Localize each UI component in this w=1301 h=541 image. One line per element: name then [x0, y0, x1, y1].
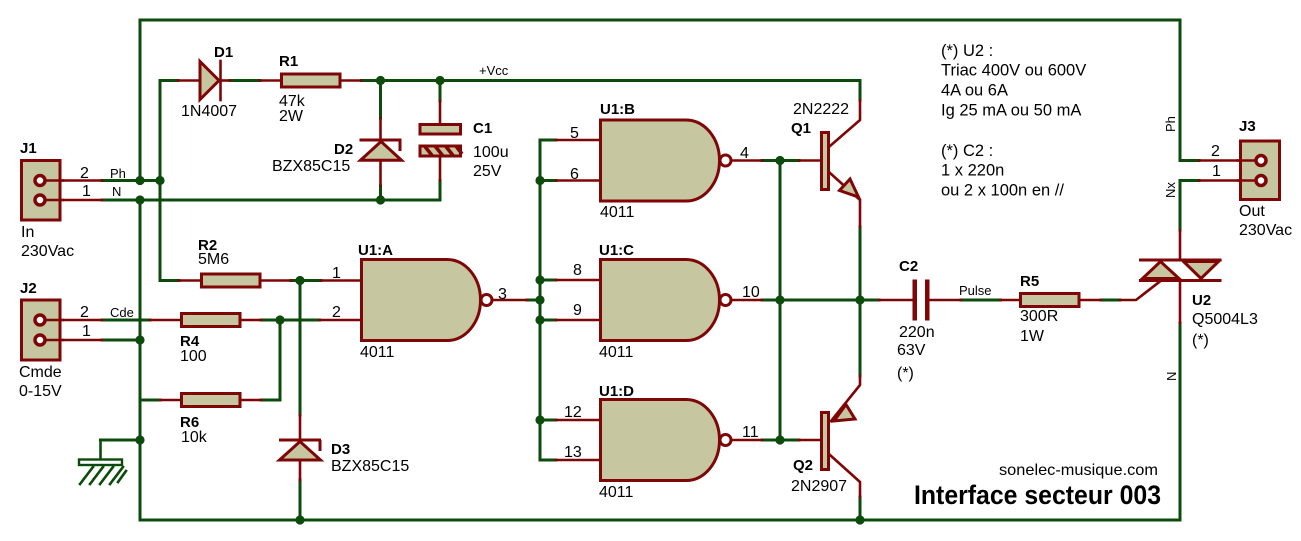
wire Ph vertical x160 from D1 down to R2 [160, 81, 179, 281]
node emitters / C2 [855, 295, 864, 304]
wire R5 left lead [1001, 299, 1020, 302]
wire U1:C out to C2 [762, 299, 879, 302]
wire Q2 emitter lead [831, 376, 860, 421]
zener D2 [360, 140, 402, 160]
wire Q1 emitter lead [830, 173, 860, 227]
connector J1 [22, 161, 61, 221]
wire U1:B pin 6 stub [556, 179, 600, 182]
svg-text:1 x 220n: 1 x 220n [941, 162, 1004, 180]
svg-text:R5: R5 [1020, 273, 1039, 290]
wire R2 right lead [262, 279, 292, 282]
wire stub pin12 [540, 419, 556, 422]
wire R4 node down to R6 [261, 320, 280, 400]
svg-text:100: 100 [180, 348, 207, 365]
wire U1:D pin 13 stub [556, 459, 600, 462]
svg-text:9: 9 [573, 302, 582, 319]
svg-text:U1:B: U1:B [600, 101, 635, 118]
wire R6 left to ground vertical [140, 399, 160, 402]
node bus pin9 [535, 315, 544, 324]
wire triac gate lead [1120, 281, 1161, 300]
wire U1:D pin 12 stub [556, 419, 600, 422]
wire Q2 collector lead [830, 455, 860, 497]
svg-text:10k: 10k [181, 429, 208, 446]
svg-text:2N2222: 2N2222 [793, 101, 849, 118]
svg-text:In: In [21, 224, 34, 241]
svg-text:63V: 63V [897, 342, 926, 359]
wire U1:A pin 1 stub [321, 279, 361, 282]
svg-text:2W: 2W [279, 108, 304, 125]
svg-text:Cmde: Cmde [19, 364, 62, 381]
svg-text:Q2: Q2 [793, 457, 813, 474]
svg-text:4011: 4011 [360, 344, 395, 361]
svg-text:Ph: Ph [110, 166, 126, 181]
wire D2 cathode lead [379, 118, 382, 140]
node pin2 / R4 / R6 [275, 315, 284, 324]
node bus pin12 [535, 415, 544, 424]
svg-text:D2: D2 [334, 141, 353, 158]
wire D3 bottom to rail [299, 480, 302, 520]
wire N/ground: left vertical, bottom rail, up to triac MT1 [140, 200, 1180, 520]
wire C2 right lead [929, 299, 961, 302]
svg-text:10: 10 [742, 284, 760, 301]
wire stub pin9 [540, 319, 556, 322]
wire J3 pin 2 lead [1199, 159, 1256, 162]
transistor Q2 [822, 405, 856, 470]
svg-text:Triac 400V ou 600V: Triac 400V ou 600V [941, 62, 1086, 80]
NAND gate U1:D [601, 400, 732, 481]
wire node pin1 vertical x300 to D3 [299, 281, 302, 416]
svg-text:1N4007: 1N4007 [181, 103, 237, 120]
wire D3 anode lead [299, 461, 302, 481]
svg-text:J1: J1 [20, 140, 37, 157]
svg-text:C2: C2 [899, 258, 918, 275]
node D3 on bottom rail [295, 515, 304, 524]
wire Ph row J1 pin2 to vertical [102, 179, 160, 182]
svg-text:Q5004L3: Q5004L3 [1192, 311, 1258, 328]
wire D1 cathode lead [222, 79, 230, 82]
wire U1:B pin 4 stub [733, 159, 763, 162]
wire N row from J1 pin1 to C1 bottom [102, 181, 440, 201]
wire J3 pin 1 lead [1199, 179, 1256, 182]
wire J3 pin stubs into box [1238, 159, 1255, 162]
svg-text:6: 6 [570, 166, 579, 183]
wire U1:A pin 2 stub [320, 319, 362, 322]
wire R6 right lead [242, 399, 262, 402]
connector J3 [1241, 141, 1280, 200]
svg-text:Ig 25 mA ou 50 mA: Ig 25 mA ou 50 mA [941, 102, 1081, 120]
svg-text:(*): (*) [897, 365, 914, 382]
NAND gate U1:A [362, 260, 493, 341]
wire D3 cathode lead [299, 415, 302, 440]
wire D2 anode lead [379, 161, 382, 187]
svg-text:Cde: Cde [110, 305, 134, 320]
wire U1:C pin 9 stub [556, 319, 600, 322]
wire R2 to U1:A pin1 [291, 279, 321, 282]
wire pin3 bus x540 pin5 to pin13 [540, 140, 556, 460]
svg-text:230Vac: 230Vac [21, 243, 74, 260]
svg-text:25V: 25V [473, 163, 502, 180]
node +Vcc at C1 [435, 76, 444, 85]
diode D1 [200, 61, 221, 100]
svg-text:11: 11 [742, 424, 759, 441]
svg-text:3: 3 [498, 286, 507, 303]
svg-text:D1: D1 [214, 44, 233, 61]
svg-text:1: 1 [82, 323, 91, 340]
node Ph at x160 [155, 176, 164, 185]
node N at left border [135, 195, 144, 204]
svg-text:sonelec-musique.com: sonelec-musique.com [999, 462, 1158, 479]
node junction dots [135, 76, 864, 525]
wire J2 pin stubs into box [45, 319, 63, 322]
svg-text:1: 1 [82, 183, 91, 200]
wire C1 top [439, 81, 442, 102]
wire emitter column Q1-Q2 [859, 227, 862, 376]
wire J2 pin 2 lead [44, 319, 102, 322]
wire D1 to R1 [230, 79, 260, 82]
svg-text:N: N [112, 184, 121, 199]
wire J2 pin2 toward R4 [102, 319, 150, 322]
wire output bus x780 [779, 161, 782, 441]
svg-text:Q1: Q1 [791, 120, 811, 137]
wire J1 pin 2 lead [44, 179, 102, 182]
wire R6 left lead [160, 399, 180, 402]
ground [79, 440, 126, 484]
svg-text:J3: J3 [1239, 118, 1256, 135]
wire U1:A output to bus [527, 299, 540, 302]
svg-text:4011: 4011 [600, 204, 635, 221]
wire R5 right lead [1082, 299, 1102, 302]
svg-text:2: 2 [80, 304, 89, 321]
wire R4 left lead [150, 319, 180, 322]
connector J2 [22, 300, 61, 360]
resistor R1 [282, 74, 341, 87]
wire Q1 base lead [799, 159, 821, 162]
wire D2 top [379, 81, 382, 119]
svg-text:(*): (*) [1192, 332, 1209, 349]
node Ph at left border [135, 176, 144, 185]
wire J2 pin1 to ground vertical [102, 339, 140, 342]
wire R5 right to triac gate stub [1101, 299, 1120, 302]
node +Vcc at D2 [376, 76, 385, 85]
wire J1 pin 1 lead [44, 199, 102, 202]
node ground symbol tap [135, 435, 144, 444]
wire R2 left lead [179, 279, 200, 282]
svg-text:100u: 100u [473, 144, 509, 161]
svg-text:230Vac: 230Vac [1239, 222, 1292, 239]
NAND gate U1:C [601, 260, 732, 341]
svg-text:U1:D: U1:D [599, 383, 634, 400]
svg-text:Out: Out [1239, 203, 1265, 220]
svg-text:Nx: Nx [1163, 182, 1178, 198]
svg-text:0-15V: 0-15V [19, 383, 62, 400]
resistor R6 [182, 394, 241, 407]
svg-text:5M6: 5M6 [198, 251, 229, 268]
node pin10 / C2 [775, 295, 784, 304]
node bus pin6 [535, 176, 544, 185]
node pin1 / R2 / D3 [295, 276, 304, 285]
wire U1:A pin 3 stub [493, 299, 528, 302]
svg-text:U1:A: U1:A [358, 242, 393, 259]
svg-text:2: 2 [1211, 143, 1220, 160]
wire R4 right lead [242, 319, 262, 322]
svg-text:U2: U2 [1192, 292, 1211, 309]
svg-text:4011: 4011 [599, 344, 634, 361]
wire Q1 collector lead [830, 100, 860, 146]
resistor R2 [202, 274, 261, 287]
svg-text:Ph: Ph [1163, 116, 1178, 132]
svg-text:5: 5 [570, 125, 579, 142]
wire R4 to U1:A pin2 [261, 319, 320, 322]
wire U1:C pin 10 stub [733, 299, 763, 302]
svg-text:N: N [1164, 372, 1179, 381]
wire triac MT2 lead [1179, 230, 1182, 260]
svg-text:Interface secteur 003: Interface secteur 003 [914, 480, 1161, 510]
transistor Q1 [822, 133, 859, 198]
svg-text:12: 12 [564, 404, 582, 421]
node bus pin3 [535, 295, 544, 304]
svg-text:2: 2 [332, 304, 341, 321]
wire U1:B pin 5 stub [556, 139, 600, 142]
svg-text:4011: 4011 [599, 484, 634, 501]
wire J2 pin 1 lead [44, 339, 102, 342]
node J2 pin1 ground [135, 335, 144, 344]
wire stub pin8 [540, 279, 556, 282]
zener D3 [279, 440, 321, 460]
svg-text:BZX85C15: BZX85C15 [272, 158, 350, 175]
svg-text:4: 4 [740, 145, 749, 162]
node Q2 collector on bottom rail [855, 515, 864, 524]
capacitor C2 [913, 280, 930, 321]
svg-text:(*) C2 :: (*) C2 : [941, 142, 993, 160]
wire triac MT1 lead [1179, 281, 1182, 324]
wire U1:D pin 11 stub [733, 439, 763, 442]
svg-text:220n: 220n [899, 324, 935, 341]
svg-text:1: 1 [332, 265, 341, 282]
wire Ph net: J1 up, top border, down to J3 pin 2 [140, 20, 1199, 181]
capacitor C1 [419, 125, 463, 158]
wire C2 right to R5 [961, 299, 1001, 302]
svg-text:R1: R1 [279, 53, 298, 70]
resistor R5 [1021, 294, 1080, 307]
wire stub pin6 [540, 179, 556, 182]
svg-text:1W: 1W [1020, 328, 1045, 345]
wire ground symbol to vertical [101, 439, 141, 442]
wire C1 top lead [439, 101, 442, 123]
wire U1:B out to Q1 base [762, 159, 799, 162]
svg-text:300R: 300R [1020, 308, 1058, 325]
wire J1 pin stubs into box [45, 179, 63, 182]
node bus pin8 [535, 275, 544, 284]
svg-text:2N2907: 2N2907 [791, 478, 847, 495]
svg-text:13: 13 [564, 444, 582, 461]
node pin4 / Q1 base [775, 156, 784, 165]
svg-text:4A ou 6A: 4A ou 6A [941, 82, 1008, 100]
svg-text:2: 2 [80, 165, 89, 182]
svg-text:Pulse: Pulse [959, 283, 992, 298]
resistor R4 [182, 314, 241, 327]
wire U1:D out to Q2 base [762, 439, 799, 442]
wire R1 left lead [260, 79, 280, 82]
node N at D2 [376, 195, 385, 204]
svg-text:(*) U2 :: (*) U2 : [941, 42, 993, 60]
wire Q2 base lead [799, 439, 821, 442]
triac U2 [1139, 260, 1222, 281]
svg-text:C1: C1 [473, 120, 492, 137]
wire D2 bottom [379, 186, 382, 200]
svg-text:D3: D3 [331, 441, 350, 458]
wire D1 anode lead [178, 79, 200, 82]
svg-text:+Vcc: +Vcc [479, 63, 509, 78]
wire C2 left lead [879, 299, 913, 302]
wire C1 bottom lead [439, 157, 442, 181]
svg-text:8: 8 [573, 262, 582, 279]
wire +Vcc rail to Q1 collector [362, 81, 861, 101]
svg-text:BZX85C15: BZX85C15 [331, 458, 409, 475]
svg-text:U1:C: U1:C [599, 242, 634, 259]
svg-text:1: 1 [1212, 163, 1221, 180]
svg-text:J2: J2 [20, 280, 37, 297]
wire R1 right lead [342, 79, 362, 82]
svg-text:ou 2 x 100n en //: ou 2 x 100n en // [941, 182, 1064, 200]
NAND gate U1:B [601, 120, 732, 201]
node pin11 / Q2 base [775, 435, 784, 444]
wire U1:C pin 8 stub [556, 279, 600, 282]
wire Nx: J3 pin1 down to triac MT2 [1180, 181, 1199, 231]
wire Q2 collector to rail [859, 497, 862, 520]
